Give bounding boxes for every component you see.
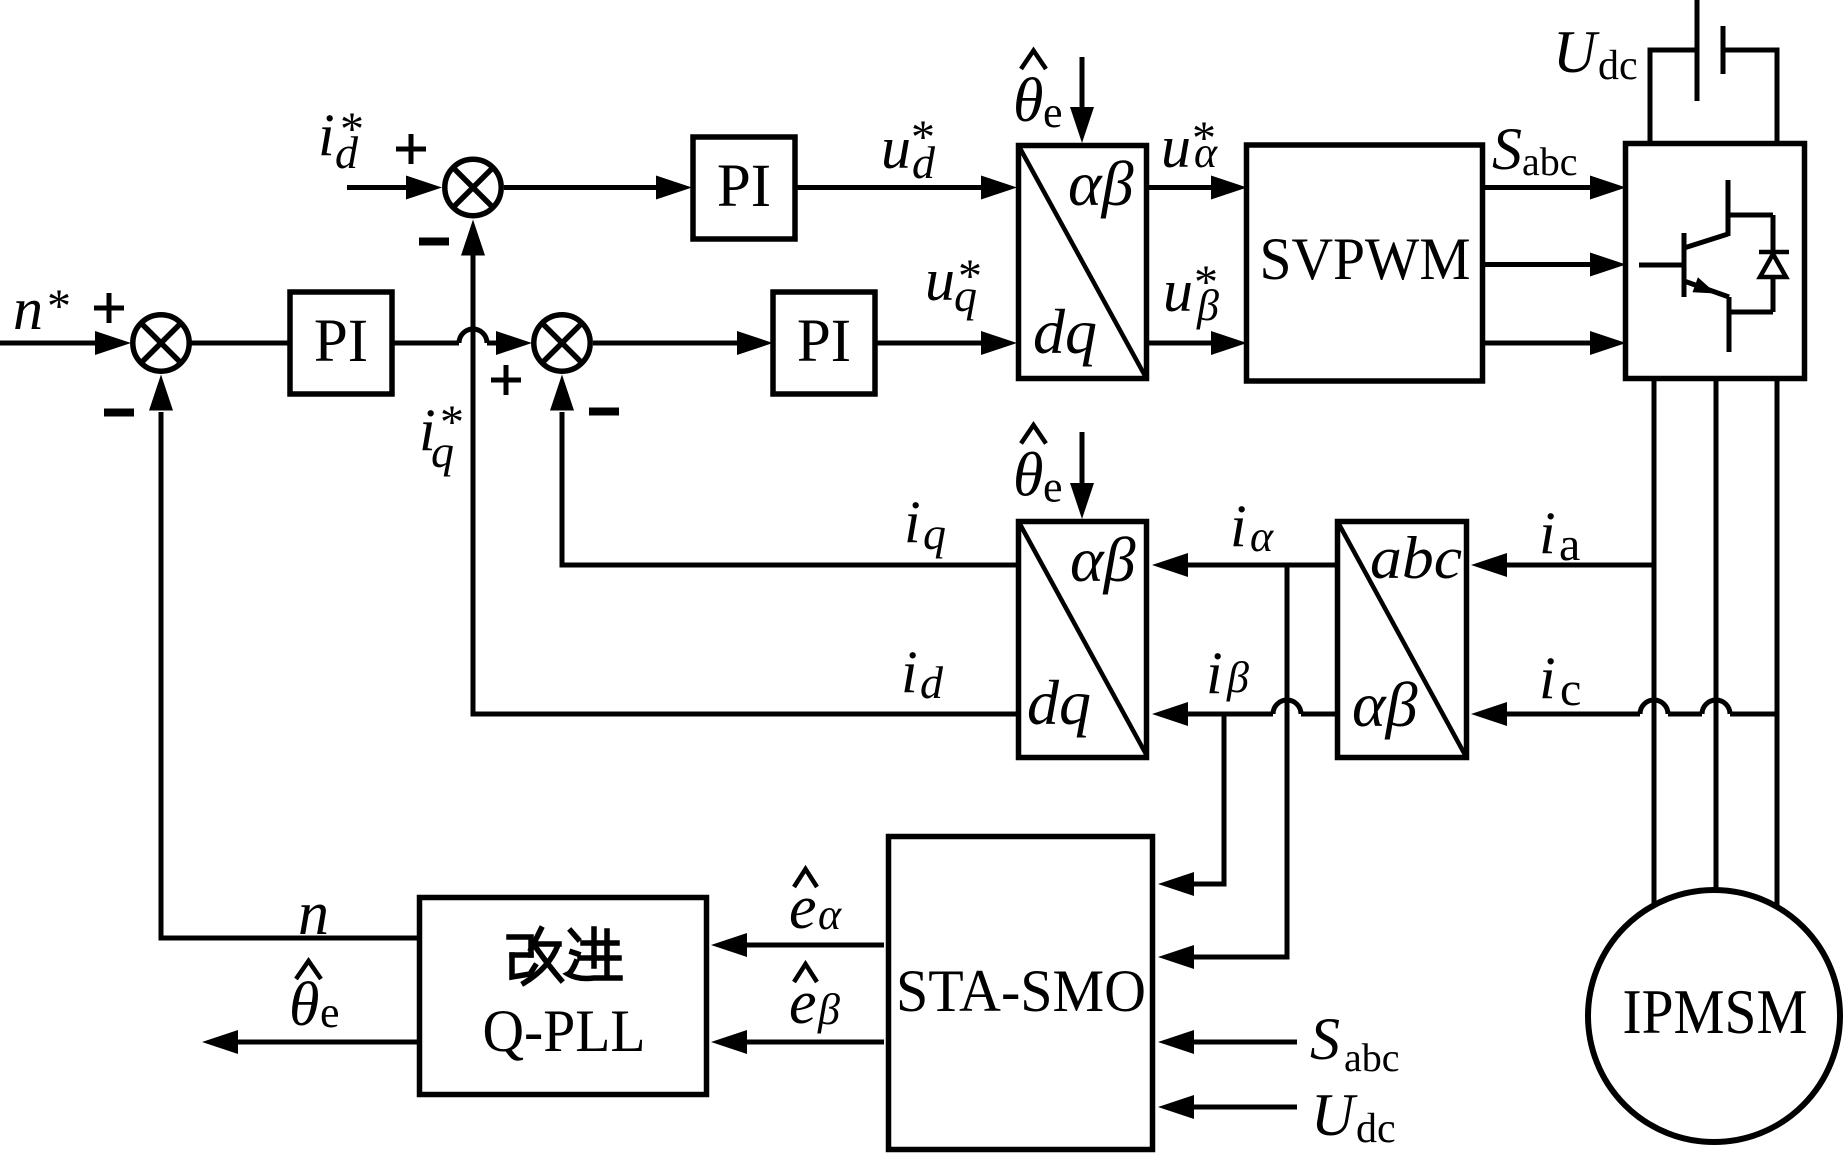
- label U_dc top: [1553, 19, 1638, 89]
- wire battery right lead: [1726, 48, 1778, 144]
- label u_d*: [881, 111, 936, 188]
- svg-text:β: β: [1226, 653, 1249, 702]
- svg-text:i: i: [1539, 645, 1556, 711]
- transistor IGBT collector stub: [1726, 180, 1731, 236]
- label PI1 text: [717, 153, 771, 220]
- wire i_beta line with hop: [1152, 700, 1338, 726]
- label alpha-beta in Clarke block: [1352, 669, 1418, 740]
- label u_q*: [925, 247, 982, 321]
- label Chinese GAI (improve): [509, 929, 561, 983]
- block dq1 inverse Park transform: [1019, 146, 1147, 379]
- summing junction SJ1 (speed): [133, 315, 189, 371]
- svg-text:αβ: αβ: [1068, 148, 1134, 219]
- label minus sign at SJ2: [589, 408, 619, 416]
- svg-text:PI: PI: [717, 153, 771, 220]
- svg-text:n: n: [298, 880, 329, 948]
- transistor IGBT body bar: [1682, 233, 1687, 297]
- wire SJ1 to PI2: [189, 341, 292, 346]
- svg-text:dc: dc: [1598, 43, 1638, 89]
- wire theta_e hat output arrow: [202, 1030, 417, 1054]
- svg-text:α: α: [818, 890, 842, 939]
- wire e_beta hat STA-SMO to Q-PLL: [711, 1030, 884, 1054]
- wire SVPWM to inverter bottom: [1483, 331, 1626, 355]
- label U_dc bottom: [1311, 1082, 1396, 1152]
- summing junction SJ3 (d-axis current): [445, 159, 501, 215]
- wire u_beta* dq1 to SVPWM: [1147, 331, 1247, 355]
- battery short plate: [1721, 26, 1726, 74]
- svg-text:e: e: [789, 969, 817, 1037]
- label n* reference: [13, 276, 71, 342]
- label e_beta hat: [789, 964, 840, 1037]
- wire phase a line: [1652, 381, 1657, 905]
- label i_q* reference: [419, 396, 464, 477]
- label abc in Clarke block: [1370, 525, 1462, 591]
- block STA-SMO observer: [889, 837, 1153, 1150]
- svg-text:*: *: [1192, 112, 1216, 165]
- svg-text:i: i: [1230, 493, 1247, 559]
- svg-text:θ: θ: [289, 971, 319, 1039]
- label i_c: [1539, 645, 1581, 716]
- block improved Q-PLL: [420, 898, 707, 1095]
- block PI2 (speed regulator): [290, 292, 392, 394]
- battery long plate: [1695, 0, 1700, 101]
- label minus sign at SJ3: [419, 238, 449, 246]
- transistor IGBT collector diagonal: [1684, 234, 1728, 248]
- label PI3 text: [797, 308, 851, 375]
- diode bottom lead: [1771, 277, 1776, 312]
- svg-text:i: i: [318, 102, 335, 168]
- wire i_alpha tap down to STA-SMO: [1158, 567, 1287, 969]
- wire PI3 to dq1 block (u_q*): [875, 331, 1017, 355]
- label Chinese JIN (advance): [568, 929, 620, 979]
- svg-text:α: α: [1250, 512, 1274, 561]
- wire battery left lead: [1650, 48, 1695, 144]
- label minus sign at SJ1: [104, 409, 134, 417]
- svg-text:d: d: [920, 657, 944, 708]
- wire PI1 to dq1 block (u_d*): [795, 176, 1017, 200]
- wire SVPWM to inverter middle: [1483, 253, 1626, 277]
- label i_a: [1539, 500, 1580, 571]
- label SVPWM text: [1260, 226, 1471, 292]
- label plus sign at SJ2: [491, 365, 521, 395]
- transistor IGBT emitter stub: [1727, 297, 1732, 352]
- diagonal of dq2 block: [1019, 522, 1147, 756]
- block PI1 (d current regulator): [693, 137, 795, 239]
- wire u_alpha* dq1 to SVPWM: [1147, 176, 1247, 200]
- svg-text:abc: abc: [1344, 1035, 1400, 1080]
- wire theta_e arrow into dq1: [1070, 57, 1094, 143]
- wire i_c sense line with hops: [1471, 700, 1780, 726]
- svg-text:*: *: [1194, 256, 1218, 309]
- label i_alpha: [1230, 493, 1274, 561]
- label u_alpha*: [1161, 112, 1218, 180]
- label S_abc: [1492, 116, 1578, 184]
- svg-text:e: e: [789, 874, 817, 942]
- wire IGBT emitter to diode: [1729, 310, 1773, 315]
- svg-text:PI: PI: [797, 308, 851, 375]
- wire n* input: [0, 331, 131, 355]
- block PI3 (q current regulator): [773, 292, 875, 394]
- wire IGBT collector to diode: [1728, 213, 1773, 218]
- wire e_alpha hat STA-SMO to Q-PLL: [711, 933, 884, 957]
- svg-text:IPMSM: IPMSM: [1623, 976, 1808, 1047]
- wire S_abc into STA-SMO: [1158, 1030, 1297, 1054]
- svg-text:i: i: [1206, 640, 1223, 706]
- label alpha-beta in dq2: [1070, 524, 1136, 595]
- svg-text:c: c: [1560, 663, 1581, 716]
- svg-text:*: *: [958, 250, 982, 303]
- wire phase c line: [1775, 381, 1780, 906]
- svg-text:dc: dc: [1356, 1106, 1396, 1152]
- diode cathode bar: [1759, 250, 1789, 255]
- svg-text:u: u: [881, 115, 911, 181]
- svg-text:αβ: αβ: [1070, 524, 1136, 595]
- svg-text:a: a: [1559, 518, 1580, 571]
- label i_q feedback: [904, 489, 946, 559]
- label alpha-beta in dq1: [1068, 148, 1134, 219]
- wire n feedback Q-PLL to SJ1: [149, 375, 419, 939]
- block dq2 Park transform: [1019, 522, 1147, 758]
- svg-text:Q-PLL: Q-PLL: [483, 998, 646, 1064]
- label S_abc bottom: [1310, 1006, 1400, 1080]
- wire i_q feedback to SJ2: [550, 375, 1018, 566]
- wire i_a sense line: [1471, 553, 1657, 577]
- svg-text:αβ: αβ: [1352, 669, 1418, 740]
- label theta_e hat into dq1: [1013, 51, 1063, 138]
- wire U_dc into STA-SMO: [1158, 1095, 1297, 1119]
- wire i_beta tap down to STA-SMO: [1158, 716, 1224, 896]
- transistor IGBT emitter diagonal with arrow: [1684, 277, 1729, 297]
- svg-text:i: i: [1539, 500, 1556, 566]
- label u_beta*: [1163, 256, 1219, 330]
- block SVPWM: [1247, 145, 1483, 381]
- label n output: [298, 880, 329, 948]
- svg-text:STA-SMO: STA-SMO: [896, 958, 1146, 1024]
- svg-text:i: i: [904, 489, 921, 555]
- label Q-PLL text: [483, 998, 646, 1064]
- label STA-SMO text: [896, 958, 1146, 1024]
- wire phase b line: [1714, 381, 1719, 891]
- label plus sign at SJ1: [94, 293, 124, 323]
- label dq in dq2: [1027, 667, 1091, 738]
- label theta_e hat into dq2: [1013, 425, 1063, 512]
- wire i_d feedback to SJ3: [461, 220, 1018, 715]
- wire i_alpha line: [1152, 553, 1338, 577]
- wire SJ3 to PI1: [504, 176, 692, 200]
- svg-text:n: n: [13, 276, 43, 342]
- svg-text:dq: dq: [1027, 667, 1091, 738]
- label theta_e hat output: [289, 961, 340, 1039]
- summing junction SJ2 (q-axis current): [534, 315, 590, 371]
- diagonal of abc block: [1338, 522, 1467, 758]
- svg-text:SVPWM: SVPWM: [1260, 226, 1471, 292]
- label plus sign at SJ3: [396, 134, 426, 164]
- svg-text:U: U: [1553, 19, 1600, 85]
- svg-text:q: q: [923, 508, 946, 559]
- svg-text:abc: abc: [1522, 139, 1578, 184]
- motor IPMSM circle: [1588, 890, 1840, 1142]
- svg-text:u: u: [1163, 258, 1193, 324]
- svg-text:S: S: [1310, 1006, 1340, 1072]
- svg-text:S: S: [1492, 116, 1522, 182]
- svg-text:e: e: [1043, 463, 1063, 512]
- diode triangle: [1760, 254, 1786, 277]
- svg-text:*: *: [340, 103, 364, 156]
- svg-text:PI: PI: [314, 308, 368, 375]
- wire theta_e arrow into dq2: [1070, 432, 1094, 519]
- svg-text:β: β: [817, 985, 840, 1034]
- wire IGBT gate lead: [1639, 263, 1684, 268]
- wire SVPWM to inverter top (S_abc): [1483, 176, 1626, 200]
- label PI2 text: [314, 308, 368, 375]
- block abc Clarke transform: [1338, 522, 1467, 758]
- label IPMSM text: [1623, 976, 1808, 1047]
- svg-text:e: e: [1043, 88, 1063, 137]
- wire i_d* input: [347, 176, 442, 200]
- label i_d feedback: [901, 639, 944, 708]
- label e_alpha hat: [789, 869, 842, 942]
- wire PI2 to SJ2 with hop over i_d feedback: [392, 329, 532, 355]
- svg-text:*: *: [47, 280, 71, 333]
- svg-text:*: *: [911, 111, 935, 164]
- svg-text:dq: dq: [1033, 296, 1097, 367]
- svg-text:θ: θ: [1013, 442, 1043, 510]
- svg-text:e: e: [320, 988, 340, 1037]
- svg-text:abc: abc: [1370, 525, 1462, 591]
- svg-text:u: u: [1161, 114, 1191, 180]
- svg-text:*: *: [440, 396, 464, 449]
- diagonal of dq1 block: [1019, 146, 1147, 379]
- label dq in dq1: [1033, 296, 1097, 367]
- svg-text:θ: θ: [1013, 67, 1043, 135]
- svg-text:i: i: [901, 639, 918, 705]
- diode freewheeling: top lead: [1771, 215, 1776, 252]
- block inverter: [1626, 144, 1805, 379]
- label i_d* reference: [318, 102, 364, 178]
- wire SJ2 to PI3: [593, 331, 773, 355]
- svg-text:U: U: [1311, 1082, 1358, 1148]
- svg-text:u: u: [925, 247, 955, 313]
- label i_beta: [1206, 640, 1249, 706]
